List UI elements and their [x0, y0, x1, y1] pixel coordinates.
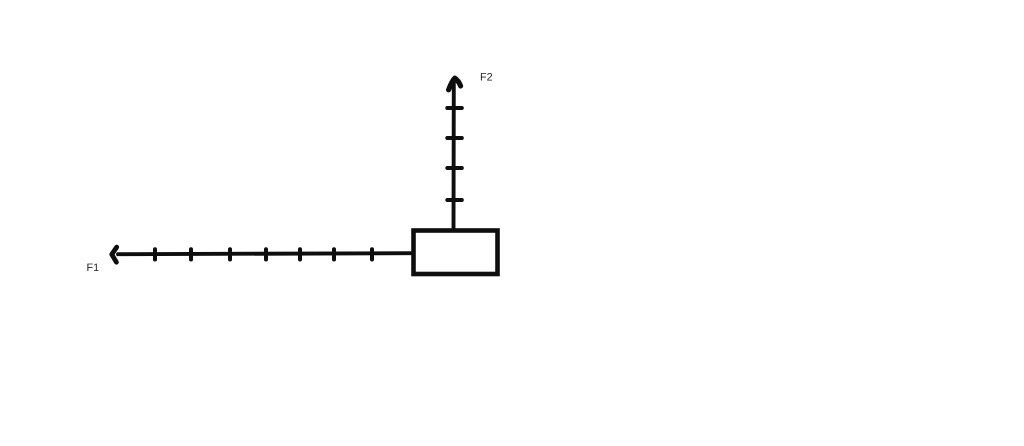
tick u3 on F2: [447, 166, 462, 170]
wire F2 shaft: [452, 81, 456, 230]
tick t1 on F1: [153, 249, 157, 259]
svg-text:F1: F1: [87, 262, 100, 274]
tick u4 on F2: [447, 198, 462, 202]
svg-text:F2: F2: [480, 71, 493, 83]
box (mass): [414, 231, 498, 275]
tick t3 on F1: [228, 249, 232, 259]
tick t5 on F1: [298, 249, 302, 259]
tick t7 on F1: [370, 249, 374, 259]
tick t4 on F1: [264, 249, 268, 259]
wire F1 arrowhead: [112, 247, 117, 262]
tick t2 on F1: [189, 249, 193, 259]
wire F2 arrowhead: [449, 78, 461, 90]
tick u1 on F2: [447, 106, 462, 110]
tick t6 on F1: [332, 249, 336, 259]
tick u2 on F2: [447, 136, 462, 140]
wire F1 shaft: [118, 253, 413, 254]
